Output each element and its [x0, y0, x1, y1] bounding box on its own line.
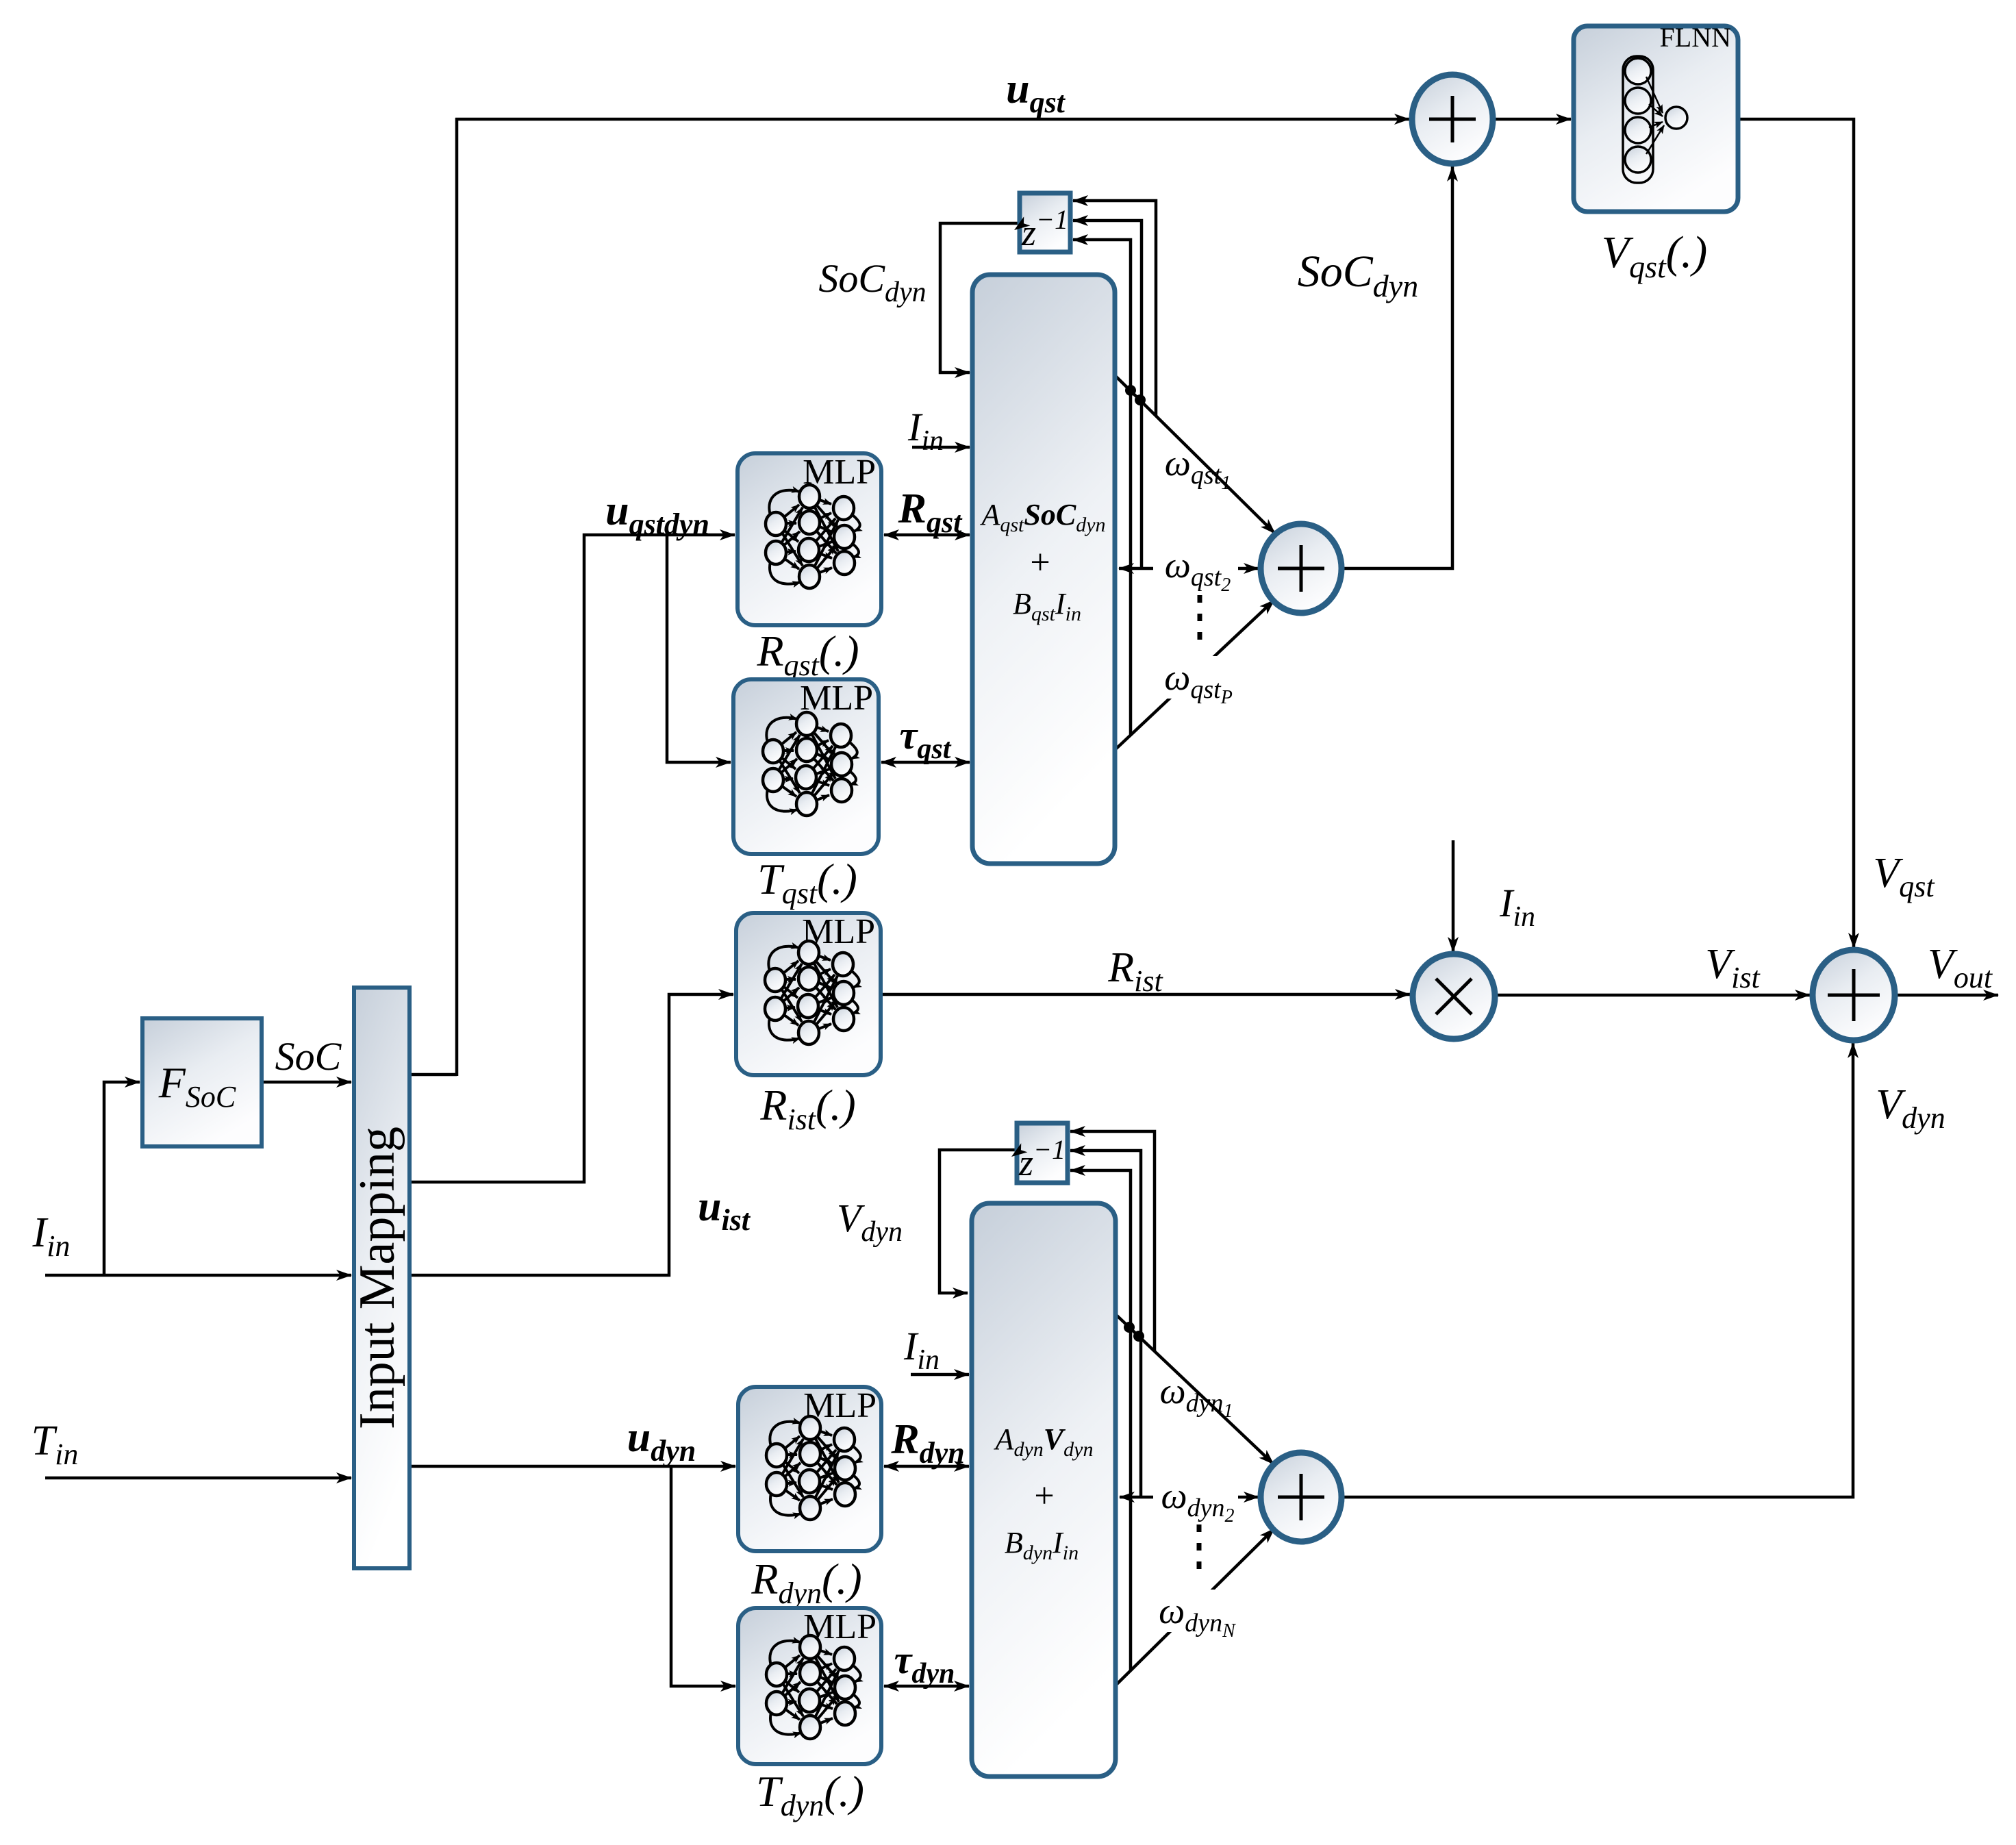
- wire V_ist: [1495, 994, 1810, 997]
- wire u_qst long top wire: [409, 1073, 457, 1077]
- block F_SoC: [142, 1018, 262, 1146]
- wire omega_qstP diagonal: [1115, 600, 1274, 750]
- junction dot qst a: [1125, 385, 1136, 396]
- wire FLNN output down to final sum: [1738, 119, 1854, 948]
- wire tau_qst double arrow: [881, 761, 970, 764]
- wire qst-sum up to sum1: [1341, 166, 1452, 568]
- wire V_dyn z-loop dyn: [940, 1150, 1017, 1293]
- wire I_in into dyn block: [911, 1373, 969, 1377]
- junction dot qst b: [1135, 394, 1146, 405]
- wire z feedback dyn 2: [1070, 1151, 1141, 1497]
- wire SoC: [262, 1081, 351, 1084]
- wire sum1 to FLNN: [1493, 118, 1571, 121]
- svg-text:+: +: [1030, 543, 1050, 582]
- junction dot dyn b: [1133, 1331, 1144, 1342]
- sum circle dyn weights: [1261, 1453, 1341, 1542]
- block qst state-space: [972, 275, 1115, 864]
- wire I_in input: [45, 1274, 351, 1277]
- wire I_in down into multiply: [1452, 840, 1455, 952]
- wire omega_qst2 tap right stub: [1238, 567, 1259, 570]
- rotated arrowhead at z1 qst output: [1011, 216, 1030, 234]
- wire u_qstdyn branch to T_qst: [667, 535, 731, 762]
- wire omega_dyn2 tap left stub: [1120, 1496, 1153, 1499]
- label omega_qstP background: [1160, 656, 1237, 699]
- rotated arrowhead at z1 dyn output: [1008, 1143, 1027, 1161]
- wire z feedback qst 2: [1073, 221, 1142, 568]
- svg-text:Input Mapping: Input Mapping: [349, 1127, 405, 1429]
- block dyn state-space: [972, 1203, 1116, 1777]
- sum circle top (u_qst + SoC_dyn): [1412, 75, 1493, 164]
- block MLP T_dyn: [738, 1607, 881, 1764]
- dotted separator qst: [1198, 595, 1202, 647]
- block z^-1 dyn: [1017, 1123, 1068, 1183]
- block MLP R_qst: [738, 453, 881, 625]
- block Input Mapping: [349, 988, 409, 1568]
- block z^-1 qst: [1020, 193, 1070, 253]
- svg-text:SoC: SoC: [275, 1034, 342, 1079]
- wire R_dyn double arrow: [884, 1465, 969, 1468]
- wire T_in input: [45, 1477, 351, 1480]
- block MLP T_qst: [733, 679, 879, 854]
- wire z feedback qst 1: [1073, 201, 1156, 416]
- block FLNN: [1574, 22, 1738, 212]
- wire z feedback dyn 3: [1070, 1170, 1131, 1671]
- svg-text:FLNN: FLNN: [1660, 22, 1731, 53]
- junction dot dyn a: [1124, 1322, 1135, 1333]
- wire omega_dyn1 diagonal: [1116, 1314, 1274, 1464]
- wire SoC_dyn z-loop qst: [940, 223, 1020, 373]
- block MLP R_ist: [736, 912, 881, 1075]
- wire u_dyn branch to T_dyn: [671, 1466, 735, 1686]
- label omega_dynN background: [1159, 1590, 1238, 1632]
- svg-text:+: +: [1034, 1477, 1054, 1516]
- wire I_in into qst block: [912, 446, 970, 449]
- wire u_ist: [409, 994, 733, 1275]
- wire tau_dyn double arrow: [884, 1685, 969, 1688]
- wire I_in branch to F_SoC: [104, 1082, 140, 1275]
- wire omega_qst2 tap left stub: [1119, 567, 1153, 570]
- wire R_qst double arrow: [884, 534, 970, 537]
- wire omega_dynN diagonal: [1115, 1529, 1274, 1686]
- wire u_qstdyn: [409, 535, 735, 1182]
- wire omega_dyn2 tap right stub: [1238, 1496, 1259, 1499]
- wire R_ist output: [881, 993, 1410, 996]
- wire dyn-sum to final sum: [1341, 1043, 1853, 1497]
- final sum circle: [1813, 950, 1895, 1040]
- wire u_dyn: [409, 1465, 735, 1468]
- wire z feedback qst 3: [1073, 240, 1131, 735]
- sum circle qst weights: [1261, 524, 1341, 613]
- dotted separator dyn: [1197, 1524, 1202, 1577]
- block MLP R_dyn: [738, 1386, 881, 1551]
- wire omega_qst1 diagonal: [1115, 375, 1275, 534]
- wire z feedback dyn 1: [1070, 1131, 1155, 1351]
- multiply circle: [1413, 954, 1495, 1039]
- wire V_out: [1895, 994, 1998, 997]
